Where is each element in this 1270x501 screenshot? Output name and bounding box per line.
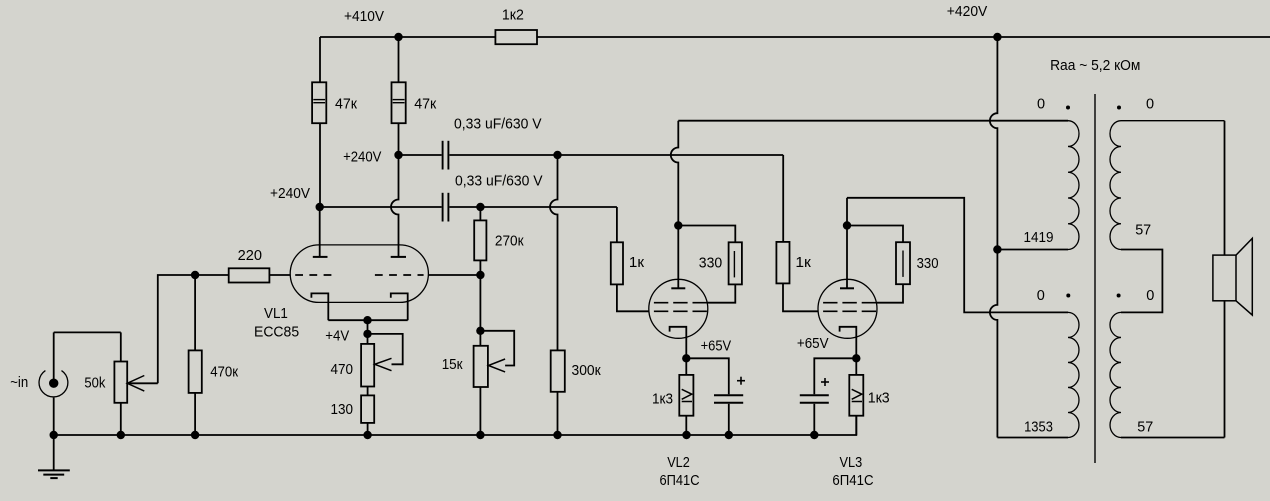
resistor 470 (adjustable): [331, 344, 392, 387]
node +410V label: [344, 9, 384, 25]
wire 470 feedback loop: [368, 334, 403, 364]
wire VL1 right grid lead to 270k node: [428, 274, 480, 276]
resistor 470k: [189, 350, 239, 393]
wire VL2 cathode to 1k3: [685, 358, 687, 375]
wire 300k bottom lead: [557, 392, 559, 435]
svg-text:0: 0: [1146, 97, 1154, 113]
junction +420V / center tap: [993, 33, 1001, 41]
wire 270k bottom lead to grid node: [479, 260, 481, 275]
wire input bottom lead: [53, 398, 55, 435]
resistor 47k right: [392, 82, 437, 123]
wire VL2 1k bottom to grid: [617, 284, 649, 311]
node +4V label: [325, 328, 349, 344]
svg-text:130: 130: [331, 402, 354, 418]
capacitor electrolytic VL2: [714, 377, 745, 403]
svg-text:220: 220: [238, 248, 262, 264]
svg-text:15к: 15к: [442, 357, 463, 373]
resistor 300k: [551, 350, 602, 391]
junction +4V node: [363, 330, 371, 338]
label 0 secondary upper: [1146, 97, 1154, 113]
wire 47k right bottom lead to +240V node: [398, 123, 400, 155]
junction bus input: [50, 431, 58, 439]
svg-text:1419: 1419: [1024, 230, 1054, 246]
node +240V upper label: [343, 149, 382, 165]
wire top rail right segment to +420V and transformer: [537, 36, 1270, 38]
tube VL2 screen grid dashes: [654, 302, 707, 304]
svg-text:VL1: VL1: [264, 306, 288, 322]
label 57 lower: [1137, 420, 1153, 436]
wire VL1 right plate line with hop over lower row: [391, 155, 399, 257]
label 0 primary lower: [1037, 288, 1045, 304]
junction bus VL2 1k3: [682, 431, 690, 439]
resistor 47k left: [312, 82, 358, 123]
junction bus VL2 cap: [725, 431, 733, 439]
svg-text:1к2: 1к2: [502, 8, 524, 24]
junction bus 130: [363, 431, 371, 439]
potentiometer 50k: [84, 362, 127, 403]
tube VL3 cathode: [840, 327, 857, 359]
wire input to pot top: [54, 331, 121, 333]
tube VL2 envelope: [649, 279, 708, 338]
svg-text:+65V: +65V: [701, 339, 732, 355]
junction lower row left (left 47k / plate): [316, 203, 324, 211]
wire VL3 330 top link: [847, 226, 903, 243]
resistor 220: [229, 248, 270, 283]
wire VL3 cathode to cap: [814, 358, 856, 394]
junction upper row / 300k branch: [553, 151, 561, 159]
wire pot bottom lead: [120, 403, 122, 435]
wire VL2 330 top link: [678, 226, 735, 243]
svg-text:6П41С: 6П41С: [660, 473, 700, 489]
svg-text:50k: 50k: [84, 376, 106, 392]
svg-text:57: 57: [1137, 420, 1153, 436]
wire input top lead: [53, 332, 55, 383]
svg-text:0,33 uF/630 V: 0,33 uF/630 V: [455, 174, 543, 190]
tube VL2 cathode: [670, 327, 687, 359]
resistor 130: [331, 395, 375, 423]
capacitor 0,33uF/630V upper: [443, 117, 542, 170]
label 57 upper: [1135, 223, 1151, 239]
node ~in label: [10, 375, 28, 391]
node +65V label VL2: [701, 339, 732, 355]
tube VL3 screen grid dashes: [823, 302, 876, 304]
tube VL1 left plate bar: [313, 256, 328, 258]
resistor 330 VL2: [699, 242, 742, 284]
svg-text:0: 0: [1037, 288, 1045, 304]
label 0 primary upper: [1037, 97, 1045, 113]
junction center tap: [993, 245, 1001, 253]
svg-text:1к3: 1к3: [868, 391, 890, 407]
pot 50k wiper arrow: [127, 376, 158, 392]
resistor 1k3 VL3 (5W): [849, 375, 889, 416]
tube VL1 left grid dashes: [295, 274, 331, 276]
wire VL1 cathode bracket: [328, 319, 407, 321]
tube VL1 right cathode: [391, 293, 408, 320]
resistor 330 VL3: [896, 242, 939, 284]
wire center tap vertical lower with hop: [990, 250, 997, 438]
wire VL3 plate row to lower primary: [847, 198, 1068, 313]
wire VL3 cathode to 1k3: [855, 358, 857, 375]
svg-text:0: 0: [1037, 97, 1045, 113]
ground: [38, 435, 70, 478]
wire grid node down to 15k: [479, 275, 481, 346]
svg-text:Raa ~ 5,2 кОм: Raa ~ 5,2 кОм: [1050, 58, 1140, 74]
node +420V label: [947, 4, 988, 20]
tube VL2 control grid dashes: [654, 310, 707, 312]
label 0 secondary lower: [1146, 288, 1154, 304]
wire 470k top lead: [194, 275, 196, 350]
resistor R 1k2: [495, 8, 537, 45]
wire VL3 plate line: [846, 198, 848, 288]
junction top rail / 47k right: [394, 33, 402, 41]
wire 15k feedback loop: [480, 331, 514, 366]
junction VL2 cathode node +65V: [682, 354, 690, 362]
junction 470k top / grid row: [191, 271, 199, 279]
junction cathode bracket: [363, 316, 371, 324]
svg-text:0,33 uF/630 V: 0,33 uF/630 V: [454, 117, 542, 133]
wire 470k bottom lead: [194, 393, 196, 435]
svg-text:330: 330: [699, 256, 722, 272]
junction VL3 plate / 330 branch: [843, 221, 851, 229]
svg-text:+240V: +240V: [343, 149, 382, 165]
tube VL3 control grid dashes: [823, 310, 876, 312]
label Raa: [1050, 58, 1140, 74]
wire cathode to +4V node: [367, 320, 369, 344]
svg-text:57: 57: [1135, 223, 1151, 239]
junction lower row / 270k top: [476, 203, 484, 211]
wire speaker bottom lead: [1224, 301, 1226, 438]
wire grid row to 220: [195, 274, 229, 276]
tube VL3 envelope: [818, 279, 877, 338]
resistor 15k (adjustable): [442, 346, 505, 387]
wire secondary series link: [1121, 250, 1162, 313]
connector input jack: [39, 371, 68, 397]
capacitor 0,33uF/630V lower: [443, 174, 543, 222]
svg-text:+420V: +420V: [947, 4, 988, 20]
svg-text:VL2: VL2: [667, 455, 690, 471]
winding secondary upper 0-57: [1110, 121, 1225, 250]
junction bus 15k: [476, 431, 484, 439]
junction 15k top / feedback loop: [476, 327, 484, 335]
wire upper row left of cap: [399, 154, 442, 156]
node +65V label VL3: [797, 336, 829, 352]
wire center tap vertical upper with hop: [990, 37, 997, 250]
svg-text:+65V: +65V: [797, 336, 829, 352]
wire lower row corner down to VL2 1k: [616, 207, 618, 242]
svg-text:+410V: +410V: [344, 9, 384, 25]
wire lower row right of cap: [449, 206, 617, 208]
junction VL3 cathode node +65V: [852, 354, 860, 362]
node +240V lower label: [270, 186, 310, 202]
wire 470-130 link: [367, 387, 369, 396]
wire VL3 1k bottom to grid: [783, 283, 818, 311]
wire 220 to VL1 grid: [269, 274, 290, 276]
svg-text:+4V: +4V: [325, 328, 349, 344]
junction grid node VL1 second triode: [476, 271, 484, 279]
polarity dot secondary upper: [1117, 106, 1121, 110]
speaker: [1213, 238, 1252, 315]
tube VL1 right grid dashes: [375, 274, 424, 276]
wire 300k line with hop over lower row: [550, 155, 558, 350]
tube VL1 right plate bar: [391, 256, 406, 258]
svg-text:1к: 1к: [629, 255, 645, 271]
svg-text:470: 470: [331, 362, 354, 378]
junction bus VL3 cap: [810, 431, 818, 439]
polarity dot primary upper: [1066, 106, 1070, 110]
wire upper row right of cap: [449, 154, 783, 156]
wire VL2 cap bottom lead: [728, 404, 730, 435]
svg-text:1к: 1к: [795, 255, 811, 271]
wire 47k left top lead: [319, 37, 321, 82]
winding primary upper 0-1419: [1068, 121, 1079, 250]
wire 15k bottom lead: [479, 387, 481, 435]
capacitor electrolytic VL3: [800, 378, 829, 403]
wire 47k right top lead: [398, 37, 400, 82]
wire VL2 330 bottom to screen: [708, 284, 736, 302]
polarity dot secondary lower: [1117, 294, 1121, 298]
wire 270k top lead: [479, 207, 481, 220]
wire VL3 1k3 bottom lead: [855, 416, 857, 435]
junction bus pot: [117, 431, 125, 439]
wire VL1 left plate line: [319, 207, 321, 257]
winding primary lower 0-1353: [1068, 312, 1079, 437]
wire wiper up to grid row: [158, 275, 195, 383]
wire primary lower bottom lead: [997, 437, 1068, 439]
wire VL2 plate line with hop over upper row: [671, 121, 678, 289]
wire 47k left bottom lead to +240V node: [319, 123, 321, 207]
resistor 1k VL3: [776, 242, 811, 284]
resistor 270k: [474, 220, 524, 260]
wire 130 bottom lead: [367, 423, 369, 435]
tube VL1 left cathode: [311, 293, 328, 320]
svg-text:1к3: 1к3: [652, 392, 673, 408]
tube VL1 envelope: [290, 245, 428, 303]
core transformer: [1094, 94, 1096, 463]
svg-text:~in: ~in: [10, 375, 28, 391]
wire VL3 cap bottom lead: [813, 404, 815, 435]
label 1419: [1024, 230, 1054, 246]
svg-text:6П41С: 6П41С: [832, 473, 873, 489]
wire top rail left segment +410V: [320, 36, 495, 38]
label 1353: [1024, 420, 1053, 436]
svg-text:470к: 470к: [210, 364, 238, 380]
winding secondary lower 0-57: [1110, 312, 1121, 437]
wire VL3 330 bottom to screen: [877, 284, 903, 303]
tube VL3 plate bar: [840, 287, 854, 289]
junction upper row left: [394, 151, 402, 159]
resistor 1k VL2: [611, 242, 645, 284]
wire VL2 plate row to primary top: [678, 120, 1068, 122]
tube VL3 designator: [832, 455, 873, 489]
wire primary upper bottom lead: [997, 249, 1068, 251]
junction bus 470k: [191, 431, 199, 439]
wire VL2 cathode to cap: [686, 358, 729, 394]
svg-text:ECC85: ECC85: [254, 324, 299, 340]
wire pot top lead: [120, 332, 122, 361]
polarity dot primary lower: [1066, 294, 1070, 298]
svg-text:1353: 1353: [1024, 420, 1053, 436]
svg-text:300к: 300к: [572, 363, 602, 379]
wire VL2 1k3 bottom lead: [685, 416, 687, 435]
tube VL2 plate bar: [671, 287, 685, 289]
svg-text:47к: 47к: [414, 97, 437, 113]
tube VL1 designator: [254, 306, 299, 340]
svg-text:270к: 270к: [495, 234, 524, 250]
junction bus 300k: [553, 431, 561, 439]
junction VL2 plate / 330 branch: [674, 221, 682, 229]
wire upper row corner down to VL3 1k: [782, 155, 784, 242]
svg-text:+240V: +240V: [270, 186, 310, 202]
tube VL2 designator: [660, 455, 700, 489]
wire speaker top lead: [1224, 121, 1226, 255]
svg-text:330: 330: [917, 256, 939, 272]
wire lower row left of cap: [320, 206, 442, 208]
svg-text:VL3: VL3: [840, 455, 863, 471]
svg-text:47к: 47к: [335, 97, 358, 113]
wire secondary lower bottom lead: [1121, 437, 1225, 439]
resistor 1k3 VL2 (5W): [652, 375, 693, 416]
svg-text:0: 0: [1146, 288, 1154, 304]
wire ground bus: [54, 416, 857, 435]
